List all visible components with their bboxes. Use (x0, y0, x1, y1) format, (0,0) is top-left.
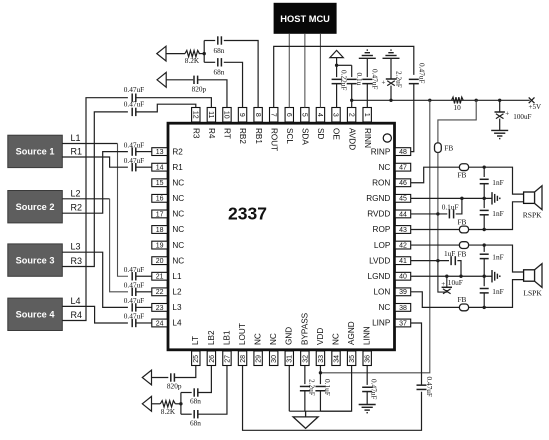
svg-text:NC: NC (172, 256, 184, 265)
svg-text:SD: SD (316, 128, 325, 139)
U1 pin 24 (L4) (152, 319, 182, 328)
svg-text:9: 9 (238, 113, 245, 117)
U1 pin 41 (LVDD) (369, 256, 411, 265)
U1 pin 32 (BYPASS) (300, 312, 309, 365)
U1 pin 2 (AVDD) (347, 108, 356, 151)
svg-text:30: 30 (271, 355, 278, 363)
svg-text:18: 18 (156, 227, 164, 234)
wire 1nF-2 between RGND and ROP (483, 198, 485, 208)
wire C-R1 to pin 14 (136, 166, 152, 168)
U1 pin 4 (SD) (316, 108, 325, 140)
svg-text:34: 34 (333, 355, 340, 363)
wire AVDD (pin2) to C-0.1u (351, 65, 353, 77)
svg-text:RINP: RINP (371, 147, 391, 156)
svg-text:39: 39 (399, 289, 407, 296)
wire bias node vertical (203, 41, 205, 63)
U1 pin 9 (RB2) (238, 108, 247, 145)
wire AVDD stem (336, 58, 338, 66)
svg-text:0.47uF: 0.47uF (124, 296, 144, 305)
svg-text:RB2: RB2 (238, 128, 247, 144)
svg-text:36: 36 (365, 355, 372, 363)
capacitor C 0.22uF (OE) (332, 78, 342, 80)
ferrite bead FB2 (RON) (459, 164, 468, 171)
svg-text:L1: L1 (71, 133, 81, 143)
U1 pin 47 (NC) (378, 163, 410, 172)
svg-text:GND: GND (285, 327, 294, 345)
svg-text:RINN: RINN (363, 128, 372, 148)
U1 pin 5 (SDA) (301, 108, 310, 146)
svg-text:LT: LT (191, 336, 200, 345)
capacitor C-R1 0.47uF (pin14) (131, 163, 133, 171)
wire R1 (Source1 R to C via jog) (62, 157, 128, 167)
wire +5V rail (352, 99, 530, 101)
svg-text:RSPK: RSPK (523, 211, 542, 220)
U1 pin 39 (LON) (373, 288, 410, 297)
ferrite bead FB3 (ROP) (459, 226, 468, 233)
svg-text:LOP: LOP (374, 241, 391, 250)
wire 1nF-3 between LOP and LGND (483, 245, 485, 252)
capacitor C 0.47uF (ROUT-RINP) (409, 78, 419, 80)
U1 pin 44 (RVDD) (367, 210, 410, 219)
svg-text:FB: FB (458, 295, 467, 304)
wire node to C-68n-1 (204, 40, 215, 42)
wire 10uF to LGND (446, 276, 448, 287)
svg-text:0.47uF: 0.47uF (124, 312, 144, 321)
wire 100uF drop (499, 100, 501, 112)
node AVDD-OE junction (335, 64, 338, 67)
capacitor C 0.47uF (LINN) (362, 386, 372, 388)
U1 pin 20 (NC) (152, 256, 185, 265)
U1 pin 45 (RGND) (366, 194, 411, 203)
wire RON (pin46) jog (411, 167, 460, 183)
svg-text:SDA: SDA (301, 128, 310, 145)
capacitor C 2.2uF (BYPASS) (300, 385, 310, 387)
port triangle P1 (right bias input) (157, 46, 166, 61)
node RON-1nF junction (483, 165, 486, 168)
svg-text:47: 47 (399, 165, 407, 172)
U1 pin 15 (NC) (152, 178, 185, 187)
svg-text:100uF: 100uF (513, 113, 531, 121)
svg-text:L2: L2 (71, 188, 81, 198)
wire L1 (Source1 L to C via drop) (62, 143, 117, 145)
svg-text:LINP: LINP (372, 319, 391, 328)
svg-text:31: 31 (287, 355, 294, 363)
svg-text:1nF: 1nF (492, 287, 503, 296)
ferrite bead FB4 (LOP) (459, 242, 468, 249)
svg-text:L3: L3 (172, 303, 182, 312)
ferrite bead FB5 (LON) (459, 304, 468, 311)
resistor R2 10 (452, 97, 464, 103)
capacitor C-L3 0.47uF (pin23) (131, 303, 133, 311)
svg-text:5: 5 (301, 113, 308, 117)
wire FB5 to LSPK (469, 280, 524, 308)
svg-text:19: 19 (156, 242, 164, 249)
svg-text:10uF: 10uF (448, 278, 463, 287)
svg-text:RGND: RGND (366, 194, 390, 203)
node junction bottom bias (179, 402, 182, 405)
wire LOP (pin42) (411, 244, 460, 246)
U1 pin 25 (LT) (191, 336, 200, 365)
wire LGND (pin40) (411, 275, 492, 277)
wire LVDD (pin41) to C-1uF (411, 260, 449, 262)
wire C-68n-4 to pin 27 (198, 366, 227, 414)
svg-text:24: 24 (156, 320, 164, 327)
wire R3 (Source3 R riser to top) (62, 112, 128, 267)
wire BYPASS (pin32) drop (304, 366, 306, 384)
resistor R3 8.2K (160, 401, 175, 407)
svg-text:ROP: ROP (373, 225, 391, 234)
capacitor C 0.1u (AVDD) (347, 78, 357, 80)
svg-text:R3: R3 (192, 128, 201, 139)
capacitor C 820p (LT) (170, 373, 172, 381)
svg-text:23: 23 (156, 305, 164, 312)
wire MCU SDA to pin 5 (304, 34, 306, 108)
svg-text:8.2K: 8.2K (161, 407, 176, 416)
node 100uF tap (498, 99, 501, 102)
wire C-820p to pin 25 (175, 366, 196, 378)
wire C-L1 to pin 21 (136, 275, 152, 277)
svg-text:LON: LON (373, 288, 390, 297)
svg-text:NC: NC (331, 333, 340, 345)
svg-text:FB: FB (458, 250, 467, 259)
wire C-0.1u to pin 2 (351, 84, 353, 108)
svg-text:27: 27 (224, 355, 231, 363)
node LGND-1nF junction (483, 275, 486, 278)
wire R-8.2K to node (175, 403, 181, 405)
svg-text:2: 2 (347, 113, 354, 117)
wire LOUT (pin28) loop to LINP (243, 366, 422, 430)
wire GND (pin31) drop (288, 366, 290, 411)
svg-text:NC: NC (378, 163, 390, 172)
wire FB4 to LSPK (469, 245, 524, 272)
wire FB feed (438, 100, 476, 143)
U1 pin 13 (R2) (152, 147, 184, 156)
wire ground bus (289, 410, 351, 412)
node VDD-rail junction (bottom) (319, 371, 322, 374)
svg-text:R4: R4 (71, 310, 83, 320)
node LON-1nF junction (483, 306, 486, 309)
U1 pin 12 (R3) (192, 108, 201, 139)
svg-text:4: 4 (316, 113, 323, 117)
svg-text:RON: RON (372, 178, 390, 187)
svg-text:0.47uF: 0.47uF (124, 100, 144, 109)
svg-text:20: 20 (156, 258, 164, 265)
node junction top bias (203, 52, 206, 55)
U1 pin 28 (LOUT) (238, 323, 247, 365)
wire P2 to C-820p (166, 79, 193, 81)
wire C-0.1uF to bus (319, 391, 321, 411)
svg-text:43: 43 (399, 227, 407, 234)
wire 1nF-2 lower (483, 215, 485, 230)
svg-text:+: + (441, 280, 445, 288)
svg-text:0.22uF: 0.22uF (340, 70, 349, 90)
svg-text:68n: 68n (214, 68, 225, 77)
source block Source 3 (8, 244, 63, 276)
svg-text:LB2: LB2 (207, 330, 216, 345)
svg-text:1nF: 1nF (492, 178, 503, 187)
U1 pin 14 (R1) (152, 163, 184, 172)
source block Source 1 (8, 135, 63, 167)
svg-text:0.47uF: 0.47uF (371, 69, 380, 89)
wire C-68n-1 to pin 8 (224, 41, 258, 108)
U1 pin 37 (LINP) (372, 319, 411, 328)
wire R2 (Source2 R to C via riser) (62, 152, 128, 214)
capacitor C+ 10uF (LVDD-LGND) (442, 286, 452, 288)
svg-text:NC: NC (172, 210, 184, 219)
U1 pin 43 (ROP) (373, 225, 411, 234)
svg-text:32: 32 (302, 355, 309, 363)
wire C-1uF down to LGND (457, 261, 461, 277)
svg-text:Source 3: Source 3 (16, 255, 55, 265)
wire P1 to R-8.2K (166, 53, 185, 55)
wire C to pin 1 RINN (366, 84, 368, 108)
svg-text:AVDD: AVDD (347, 128, 356, 150)
U1 pin 33 (VDD) (316, 328, 325, 366)
U1 pin 10 (RT) (223, 108, 232, 139)
capacitor C 68n (LB2) (193, 388, 195, 396)
wire 1nF-4 lower (483, 293, 485, 308)
ground inverted (2.2uF) (383, 57, 400, 59)
node RVDD tap (436, 212, 439, 215)
ground inverted (RINN cap) (359, 57, 376, 59)
U1 pin 18 (NC) (152, 225, 185, 234)
svg-text:38: 38 (399, 305, 407, 312)
svg-text:LGND: LGND (368, 272, 391, 281)
svg-text:LSPK: LSPK (523, 289, 542, 298)
svg-text:37: 37 (399, 320, 407, 327)
svg-text:1nF: 1nF (492, 209, 503, 218)
svg-text:0.47uF: 0.47uF (124, 265, 144, 274)
capacitor C-L4 0.47uF (pin24) (131, 319, 133, 327)
svg-text:14: 14 (156, 165, 164, 172)
node ROP-1nF junction (483, 228, 486, 231)
wire bias node vertical (bottom) (180, 393, 182, 415)
wire C to pin 37 LINP (411, 323, 422, 385)
capacitor C 1nF (ROP) (480, 209, 489, 211)
svg-text:10: 10 (223, 111, 230, 119)
U1 pin 1 (RINN) (363, 108, 372, 149)
wire R-8.2K to node (199, 53, 205, 55)
U1 pin 46 (RON) (372, 178, 411, 187)
svg-text:RT: RT (223, 128, 232, 139)
wire 1nF-3 lower (483, 259, 485, 277)
capacitor C 1uF (LVDD) (450, 256, 452, 265)
U1 pin 48 (RINP) (371, 147, 411, 156)
svg-text:RB1: RB1 (254, 128, 263, 144)
svg-text:NC: NC (172, 225, 184, 234)
svg-text:11: 11 (207, 111, 214, 118)
wire FB to RVDD/LVDD (437, 153, 439, 261)
svg-text:LB1: LB1 (222, 330, 231, 345)
svg-text:NC: NC (172, 241, 184, 250)
wire R4 (Source4 R riser to top) (62, 98, 128, 321)
svg-text:L4: L4 (71, 296, 81, 306)
capacitor C 68n (RB1) (217, 36, 219, 44)
wire L3 (Source3 L to C via drop) (62, 252, 128, 307)
svg-text:2.2uF: 2.2uF (394, 71, 403, 88)
svg-text:3: 3 (332, 113, 339, 117)
svg-text:21: 21 (156, 274, 164, 281)
svg-text:+: + (505, 109, 509, 117)
wire 100uF to gnd (499, 119, 501, 131)
svg-text:Source 2: Source 2 (16, 202, 55, 212)
svg-text:1: 1 (363, 113, 370, 117)
capacitor C-R4 0.47uF (pin11) (131, 94, 133, 102)
svg-text:820p: 820p (192, 85, 207, 94)
wire L2 (Source2 L to C via drop) (62, 198, 109, 200)
capacitor C 0.47uF (RINN) (362, 78, 372, 80)
wire C-0.1uF up to RGND (456, 198, 462, 214)
svg-text:2337: 2337 (228, 204, 267, 224)
svg-text:16: 16 (156, 196, 164, 203)
capacitor C-R2 0.47uF (pin13) (131, 147, 133, 155)
U1 pin 11 (R4) (207, 108, 216, 139)
svg-text:BYPASS: BYPASS (300, 312, 309, 345)
node RGND-0.1uF junction (460, 197, 463, 200)
power symbol AVDD triangle (330, 50, 343, 57)
U1 pin 42 (LOP) (374, 241, 411, 250)
svg-text:L4: L4 (172, 319, 182, 328)
source block Source 4 (8, 298, 63, 330)
wire C-R4 to pin 11 (136, 98, 211, 108)
svg-text:+5V: +5V (529, 103, 542, 111)
wire AVDD link (337, 64, 352, 66)
svg-text:44: 44 (399, 211, 407, 218)
svg-text:R4: R4 (207, 128, 216, 139)
U1 pin 7 (ROUT) (269, 108, 278, 152)
capacitor C 0.1uF (VDD) (315, 385, 325, 387)
svg-text:8: 8 (254, 113, 261, 117)
svg-text:0.47uF: 0.47uF (425, 377, 434, 397)
U1 pin 35 (AGND) (347, 321, 356, 365)
U1 pin 6 (SCL) (285, 108, 294, 145)
capacitor C 0.1uF (RVDD) (448, 209, 450, 218)
svg-text:28: 28 (240, 355, 247, 363)
speaker LSPK (524, 264, 542, 288)
ground earth (LINN) (359, 404, 376, 406)
svg-text:42: 42 (399, 242, 407, 249)
wire L4 (Source4 L to C via drop) (62, 306, 128, 323)
svg-text:0.47uF: 0.47uF (124, 281, 144, 290)
wire ROUT (pin7) loop to RINP (274, 46, 414, 107)
svg-text:68n: 68n (190, 419, 201, 428)
svg-text:17: 17 (156, 211, 164, 218)
capacitor C-R3 0.47uF (pin12) (131, 108, 133, 116)
svg-text:Source 1: Source 1 (16, 147, 55, 157)
wire C-R3 to pin 12 (jog) (136, 104, 196, 112)
U1 pin 19 (NC) (152, 241, 185, 250)
capacitor C 820p (RT) (193, 76, 195, 84)
wire C-68n-3 to pin 26 (198, 366, 211, 393)
wire LINN (pin36) drop (366, 366, 368, 385)
wire 1nF-1 drop (483, 167, 485, 177)
capacitor C 1nF (LON) (480, 288, 489, 290)
source block Source 2 (8, 191, 63, 223)
svg-text:R3: R3 (71, 256, 83, 266)
svg-text:LOUT: LOUT (238, 323, 247, 345)
wire LON (pin39) jog (411, 292, 460, 308)
op-amp U1 body (2337 quad-amp IC) (168, 123, 395, 350)
capacitor C 68n (LB1) (193, 410, 195, 418)
svg-text:FB: FB (458, 171, 467, 180)
wire RGND (pin45) (411, 197, 492, 199)
svg-text:SCL: SCL (285, 128, 294, 144)
node LOP-1nF junction (483, 243, 486, 246)
U1 pin 40 (LGND) (368, 272, 411, 281)
svg-text:R2: R2 (71, 203, 83, 213)
svg-text:8.2K: 8.2K (185, 56, 200, 65)
wire P3 to C-820p (152, 377, 169, 379)
ferrite bead FB1 (435, 143, 442, 153)
svg-text:45: 45 (399, 196, 407, 203)
U1 pin 22 (L2) (152, 288, 182, 297)
wire node to C-68n-3 (181, 392, 192, 394)
svg-text:46: 46 (399, 180, 407, 187)
ground sideways (LGND) (491, 270, 493, 282)
svg-text:FB: FB (444, 144, 453, 153)
svg-text:R1: R1 (172, 163, 183, 172)
wire FB2 to RSPK (469, 167, 524, 194)
node AVDD rail junction (350, 99, 353, 102)
capacitor C+ 2.2uF (rail) (386, 78, 396, 80)
port triangle P2 (right osc input) (157, 72, 166, 87)
svg-text:68n: 68n (190, 397, 201, 406)
capacitor C+ 100uF (495, 111, 505, 113)
wire C-L3 to pin 23 (136, 306, 152, 308)
U1 pin 8 (RB1) (254, 108, 263, 145)
svg-text:6: 6 (285, 113, 292, 117)
svg-text:L2: L2 (172, 288, 182, 297)
capacitor C 1nF (LOP) (480, 253, 489, 255)
capacitor C 68n (RB2) (217, 58, 219, 66)
svg-text:FB: FB (458, 217, 467, 226)
wire VDD (pin33) drop (319, 366, 321, 384)
svg-text:13: 13 (156, 149, 164, 156)
svg-text:L1: L1 (172, 272, 182, 281)
svg-text:L3: L3 (71, 242, 81, 252)
capacitor C-L1 0.47uF (pin21) (131, 272, 133, 280)
svg-text:0.1uF: 0.1uF (323, 379, 332, 396)
svg-text:25: 25 (193, 355, 200, 363)
svg-text:26: 26 (209, 355, 216, 363)
wire gnd to C-0.47uF RINN (366, 58, 368, 77)
svg-text:1nF: 1nF (492, 253, 503, 262)
svg-text:0.47uF: 0.47uF (370, 379, 379, 399)
wire C to pin 48 RINP (411, 84, 414, 152)
U1 pin 36 (LINN) (363, 326, 372, 365)
U1 pin 3 (OE) (332, 108, 341, 141)
svg-text:HOST MCU: HOST MCU (280, 14, 330, 24)
wire ROP (pin43) (411, 229, 460, 231)
U1 pin 17 (NC) (152, 210, 185, 219)
U1 pin 38 (NC) (378, 303, 410, 312)
svg-text:NC: NC (269, 333, 278, 345)
ground sideways (RGND) (491, 192, 493, 204)
wire node to C-68n-4 (181, 413, 192, 415)
U1 pin 23 (L3) (152, 303, 182, 312)
node 2.2uF rail junction (389, 99, 392, 102)
wire RVDD (pin44) to C-0.1uF (411, 213, 448, 215)
svg-text:LVDD: LVDD (369, 256, 390, 265)
resistor R1 8.2K (185, 50, 200, 56)
svg-text:LINN: LINN (363, 326, 372, 345)
svg-text:0.47uF: 0.47uF (417, 63, 426, 83)
node VDD tap (428, 99, 431, 102)
terminal X +5V (529, 97, 535, 103)
ground earth (100uF) (491, 129, 508, 131)
svg-text:0.47uF: 0.47uF (124, 85, 144, 94)
U1 pin 27 (LB1) (222, 330, 231, 366)
